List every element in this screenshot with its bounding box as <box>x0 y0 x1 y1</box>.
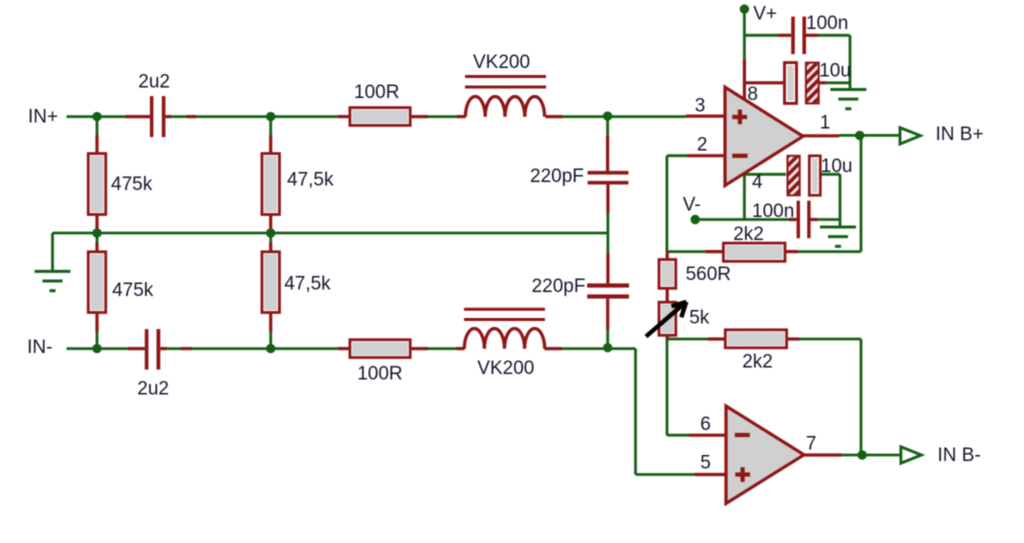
svg-text:220pF: 220pF <box>532 276 586 297</box>
svg-text:IN+: IN+ <box>28 107 58 128</box>
svg-text:47,5k: 47,5k <box>284 274 331 295</box>
svg-text:100R: 100R <box>357 364 402 385</box>
svg-text:IN-: IN- <box>27 337 52 358</box>
svg-text:6: 6 <box>700 414 711 435</box>
svg-text:5: 5 <box>700 453 711 474</box>
svg-text:2: 2 <box>697 135 708 156</box>
svg-text:3: 3 <box>695 96 706 117</box>
svg-text:IN B-: IN B- <box>938 445 981 466</box>
svg-text:475k: 475k <box>111 174 153 195</box>
svg-text:220pF: 220pF <box>530 166 584 187</box>
svg-text:2u2: 2u2 <box>137 379 169 400</box>
svg-text:2k2: 2k2 <box>733 224 764 245</box>
svg-text:8: 8 <box>747 84 758 105</box>
svg-text:5k: 5k <box>689 308 710 329</box>
svg-text:IN B+: IN B+ <box>936 124 984 145</box>
svg-text:1: 1 <box>820 113 831 134</box>
svg-text:475k: 475k <box>112 280 154 301</box>
svg-text:47,5k: 47,5k <box>287 170 334 191</box>
svg-text:4: 4 <box>752 172 763 193</box>
svg-text:10u: 10u <box>821 156 853 177</box>
svg-text:100n: 100n <box>806 13 848 34</box>
svg-text:2k2: 2k2 <box>742 352 773 373</box>
svg-text:2u2: 2u2 <box>138 72 170 93</box>
svg-text:VK200: VK200 <box>473 52 530 73</box>
svg-text:V+: V+ <box>753 4 777 25</box>
svg-text:7: 7 <box>806 434 817 455</box>
svg-text:VK200: VK200 <box>477 358 534 379</box>
svg-text:10u: 10u <box>819 61 851 82</box>
svg-text:V-: V- <box>683 195 701 216</box>
svg-text:560R: 560R <box>686 264 731 285</box>
svg-text:100n: 100n <box>752 201 794 222</box>
svg-text:100R: 100R <box>354 82 399 103</box>
